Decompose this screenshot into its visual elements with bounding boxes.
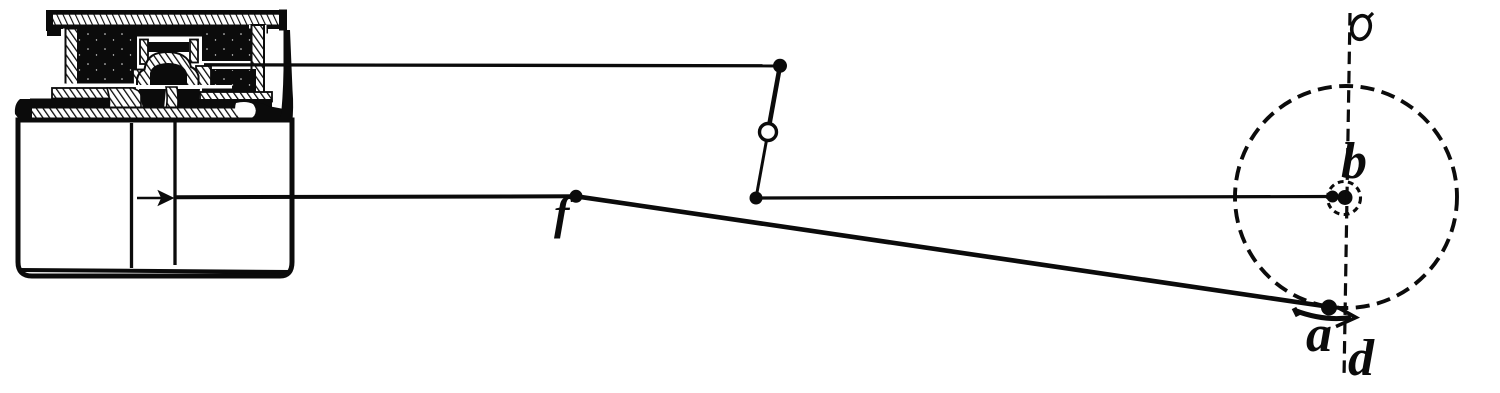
rotation arrow at a	[1294, 307, 1356, 327]
vertical dashed line c-d	[1344, 13, 1350, 379]
chamber speckle texture	[78, 29, 255, 91]
link top joint dot	[773, 59, 787, 73]
crank center hub (dotted circle)	[1328, 182, 1361, 215]
crank center dot b	[1338, 190, 1353, 205]
svg-text:a: a	[1306, 306, 1332, 363]
link bar upper segment	[768, 66, 780, 132]
bell inner black cavity	[150, 63, 187, 88]
svg-text:b: b	[1341, 133, 1367, 190]
piston rod guide lines	[132, 122, 176, 268]
svg-text:d: d	[1348, 330, 1375, 387]
piston rod from cylinder to f	[176, 194, 576, 199]
upper rod from valve to link	[204, 65, 780, 66]
valve seat white gap row	[132, 85, 232, 89]
cylinder top plate (hatched)	[31, 30, 293, 124]
left hatched fillet neck	[107, 88, 141, 118]
left flange ledge (hatched)	[48, 84, 136, 99]
chamber left wall (hatched column)	[63, 29, 80, 87]
cylinder body	[18, 120, 292, 276]
diaphragm chamber lid (hatched cap)	[46, 10, 287, 37]
right flange ledge (hatched)	[200, 92, 272, 102]
central valve box (hatched walls, black port)	[137, 37, 202, 65]
link bar lower segment	[756, 132, 768, 198]
crank pin dot a	[1321, 300, 1337, 316]
joint f dot	[570, 190, 583, 203]
label c tail	[1369, 13, 1374, 18]
centre hatched fillet neck	[164, 87, 178, 118]
piston travel arrow	[137, 193, 172, 204]
right wall black corner	[280, 30, 293, 124]
crank circle (dashed)	[1235, 86, 1457, 308]
gasket black band	[15, 99, 272, 124]
rod from link to crank center b	[756, 197, 1333, 199]
label c (script oval)	[1349, 13, 1373, 41]
lever from f to a	[576, 196, 1327, 306]
link pivot open circle	[760, 124, 777, 141]
link bottom joint dot	[750, 192, 763, 205]
chamber right wall (hatched column)	[249, 25, 267, 96]
bell-shaped valve (hatched shell)	[133, 52, 211, 88]
valve pedestal black blocks	[139, 89, 200, 109]
chamber interior black volume	[77, 29, 256, 93]
rod end dot at b	[1327, 191, 1339, 203]
